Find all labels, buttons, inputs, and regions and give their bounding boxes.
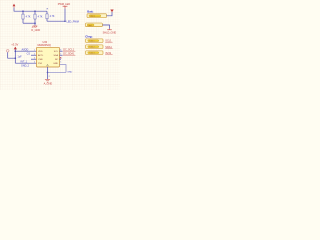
wire (34, 19, 36, 23)
power port +3.3V left (11, 43, 18, 50)
wire to R3 (46, 11, 48, 14)
connector J5 (86, 51, 104, 55)
svg-text:GND: GND (53, 63, 58, 65)
svg-text:LED_PWM: LED_PWM (67, 21, 79, 24)
wire bottom of pullups (23, 22, 35, 24)
junction (34, 22, 36, 24)
svg-text:Batt:: Batt: (87, 9, 93, 13)
svg-text:A_GND: A_GND (44, 83, 53, 86)
connector J3 (86, 39, 104, 43)
svg-text:GND_2: GND_2 (21, 64, 30, 67)
wire (46, 19, 48, 21)
ground GND2 (44, 79, 53, 85)
svg-text:AVTL: AVTL (38, 54, 44, 57)
wire (22, 11, 24, 14)
IC U30 body (37, 47, 60, 67)
svg-text:Tube 1: Tube 1 (89, 40, 94, 42)
bottom logo (47, 64, 49, 66)
svg-text:+3.3V: +3.3V (11, 43, 18, 47)
svg-text:4: 4 (34, 62, 35, 64)
wire pin2 stub (31, 54, 37, 56)
wire gnd loop right (60, 65, 67, 73)
svg-text:4.7K: 4.7K (26, 15, 31, 18)
svg-text:2: 2 (34, 54, 35, 56)
wire (34, 11, 36, 14)
power symbol top-left (13, 4, 16, 8)
svg-text:Chrg:: Chrg: (85, 34, 92, 38)
svg-text:1: 1 (34, 50, 35, 52)
ground GND1 (31, 26, 40, 32)
power port PWM_LED top-center (58, 3, 71, 9)
svg-text:Batt 1: Batt 1 (91, 15, 95, 18)
svg-text:5: 5 (60, 62, 61, 64)
svg-text:4.7K: 4.7K (50, 15, 55, 18)
power bar symbol (103, 29, 117, 35)
wire top rail (14, 8, 47, 12)
svg-text:PWM_LED: PWM_LED (58, 3, 71, 6)
no-connect X (60, 57, 62, 59)
svg-text:GND: GND (67, 71, 72, 73)
junction (15, 50, 17, 52)
svg-text:Tube 3: Tube 3 (89, 52, 94, 54)
svg-text:Tube 2: Tube 2 (89, 46, 94, 48)
svg-text:3: 3 (34, 58, 35, 60)
junction (34, 10, 36, 12)
wire pin1 (15, 50, 36, 52)
pin stubs right (60, 50, 63, 52)
connector J1 (87, 14, 107, 18)
svg-text:CS: CS (27, 53, 31, 56)
svg-text:4.7K: 4.7K (38, 15, 43, 18)
wire (103, 25, 110, 29)
wire (48, 71, 67, 73)
junction (15, 57, 17, 59)
svg-text:SDA: SDA (54, 54, 59, 57)
svg-text:AVDD: AVDD (22, 49, 29, 52)
resistor R1 (22, 14, 24, 19)
svg-text:D_GND: D_GND (31, 29, 40, 32)
cap circle symbol (6, 49, 9, 52)
svg-text:INT_1: INT_1 (21, 61, 28, 64)
wire (14, 49, 16, 63)
resistor R3 (46, 14, 48, 19)
connector J4 (86, 45, 104, 49)
wire (22, 19, 24, 23)
connector J2 (86, 23, 103, 27)
background (0, 0, 120, 90)
pin numbers (34, 50, 61, 64)
svg-text:CSB: CSB (38, 59, 43, 61)
junction (22, 10, 24, 12)
svg-text:1uF: 1uF (18, 56, 23, 59)
svg-text:VDD: VDD (38, 51, 43, 53)
wire bottom pin (47, 67, 49, 79)
svg-text:NC: NC (55, 59, 59, 61)
wire to LED net (47, 20, 65, 22)
svg-text:SHLD_GND: SHLD_GND (103, 32, 117, 35)
junction (47, 72, 49, 74)
junction (64, 20, 66, 22)
wire (107, 12, 113, 16)
power arrow top-right (110, 10, 113, 13)
wire (8, 52, 16, 58)
svg-text:MMA8452Q: MMA8452Q (38, 44, 51, 47)
wire (34, 23, 36, 25)
wire pin3 stub (31, 58, 37, 60)
resistor R2 (34, 14, 36, 19)
svg-text:Gnd: Gnd (88, 25, 91, 27)
wire (64, 9, 66, 22)
wire pin4 (15, 62, 36, 64)
